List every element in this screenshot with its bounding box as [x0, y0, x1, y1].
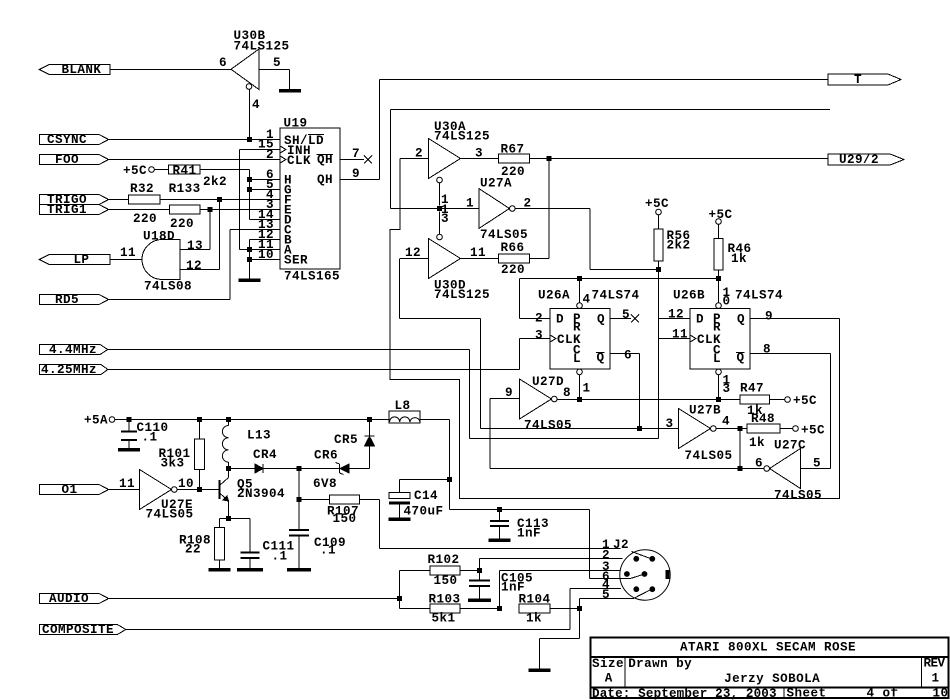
junction C14 — [447, 477, 452, 482]
junction SER — [247, 257, 252, 262]
junction Q5 emitter — [226, 516, 231, 521]
svg-text:4: 4 — [252, 98, 260, 112]
svg-text:+5C: +5C — [801, 424, 825, 438]
svg-text:U18D: U18D — [143, 230, 175, 244]
wire U27A input feed from top — [391, 110, 831, 209]
wire U19 G stub — [250, 189, 281, 191]
capacitor C111 .1 — [229, 519, 295, 569]
svg-text:QH: QH — [317, 153, 333, 167]
svg-text:4.25MHz: 4.25MHz — [41, 363, 97, 377]
capacitor C14 470uF — [389, 480, 450, 519]
inductor L8 — [389, 399, 420, 423]
svg-text:74LS05: 74LS05 — [685, 449, 733, 463]
wire U30B pin5 to ground — [259, 70, 290, 90]
svg-text:10: 10 — [258, 248, 274, 262]
svg-text:22: 22 — [185, 543, 201, 557]
junction R102/C105/J2 pin2 — [477, 568, 482, 573]
wire U27B out to U27C line — [739, 429, 741, 469]
resistor R56 2k2 — [654, 215, 691, 261]
svg-text:1k: 1k — [731, 252, 747, 266]
wire R41 to U19 H G — [200, 170, 280, 220]
resistor R102 150 — [400, 553, 480, 588]
junction U27C line — [738, 466, 743, 471]
wire U27D input from U27C out — [490, 399, 520, 469]
wire U27B output — [716, 428, 747, 430]
wire U26A CLK stub — [520, 338, 551, 340]
svg-text:U26B: U26B — [673, 289, 705, 303]
inverter U27D 74LS05 — [505, 375, 572, 433]
junction R67/R66 — [546, 156, 551, 161]
junction G — [247, 187, 252, 192]
wire U30D pin12 to U27B input net — [400, 259, 481, 429]
svg-text:3k3: 3k3 — [161, 457, 185, 471]
svg-text:TRIG1: TRIG1 — [47, 203, 87, 217]
svg-text:L: L — [713, 352, 721, 366]
wire U26A CL to clear net — [579, 375, 581, 400]
svg-text:8: 8 — [563, 386, 571, 400]
wire U26B CLK stub — [659, 338, 691, 340]
svg-text:0: 0 — [723, 295, 731, 309]
power +5C at R41 — [123, 164, 154, 178]
svg-text:Q: Q — [737, 351, 745, 365]
svg-text:R66: R66 — [501, 241, 525, 255]
wire AUDIO — [109, 598, 400, 600]
svg-text:D: D — [696, 313, 704, 327]
junction R46/preset net — [716, 276, 721, 281]
wire J2 pin5 — [580, 599, 634, 609]
svg-text:220: 220 — [133, 212, 157, 226]
svg-text:74LS165: 74LS165 — [284, 270, 340, 284]
wire T net top horizontal — [380, 79, 829, 81]
svg-text:13: 13 — [187, 239, 203, 253]
buffer U30A 74LS125 — [415, 120, 490, 207]
svg-text:1: 1 — [583, 382, 591, 396]
ground at C105 — [468, 599, 491, 603]
svg-text:Drawn by: Drawn by — [628, 657, 692, 671]
junction C110 — [127, 417, 132, 422]
junction AUDIO — [397, 596, 402, 601]
resistor R41 2k2 — [154, 164, 227, 189]
wire R56 to U26 D inputs and 4.4MHz net — [658, 261, 660, 439]
svg-text:5: 5 — [273, 56, 281, 70]
input flag TRIG0 — [40, 193, 109, 207]
inverter U27C 74LS05 — [755, 439, 822, 503]
svg-text:U29/2: U29/2 — [839, 153, 879, 167]
svg-text:R102: R102 — [428, 553, 460, 567]
svg-text:Size: Size — [592, 657, 624, 671]
svg-text:10: 10 — [933, 687, 949, 700]
junction CR4/CR6/C109 — [297, 466, 302, 471]
wire J2 pin2 — [480, 559, 623, 571]
diode CR5 — [334, 420, 375, 469]
svg-text:CR6: CR6 — [314, 449, 338, 463]
svg-text:J2: J2 — [613, 538, 629, 552]
resistor R66 220 — [461, 241, 530, 277]
svg-text:74LS05: 74LS05 — [774, 489, 822, 503]
svg-text:74LS05: 74LS05 — [524, 419, 572, 433]
wire R133 to U19 E — [200, 209, 280, 211]
inverter U27A 74LS05 — [466, 177, 532, 243]
svg-text:6V8: 6V8 — [313, 477, 337, 491]
wire R102/R103 link — [399, 571, 401, 609]
svg-text:74LS05: 74LS05 — [146, 508, 194, 522]
svg-text:R32: R32 — [130, 182, 154, 196]
svg-text:A: A — [605, 672, 613, 686]
input flag AUDIO — [40, 592, 109, 606]
svg-text:74LS74: 74LS74 — [735, 289, 783, 303]
input flag FOO — [40, 153, 109, 167]
svg-text:U26A: U26A — [538, 289, 570, 303]
wire U19 INH to A — [240, 150, 281, 250]
junction U27B input — [637, 426, 642, 431]
wire U18D pin11 to LP — [110, 246, 142, 260]
svg-text:12: 12 — [668, 308, 684, 322]
output flag T — [828, 73, 901, 87]
wire U27E out to Q5 base — [177, 489, 218, 491]
wire preset net — [520, 279, 719, 319]
ground at C14 — [389, 518, 411, 522]
svg-text:2k2: 2k2 — [667, 239, 691, 253]
wire U26A PR to preset net — [579, 279, 581, 303]
resistor R46 1k — [714, 224, 752, 270]
capacitor C113 1nF — [490, 510, 549, 541]
resistor R104 1k — [519, 593, 580, 626]
inverter U27B 74LS05 — [666, 404, 733, 464]
inverter U27E 74LS05 — [119, 470, 194, 522]
ground at U30B pin5 — [279, 89, 301, 93]
resistor R108 22 — [179, 519, 229, 569]
wire O1 to U27E — [109, 489, 140, 491]
svg-text:8: 8 — [763, 343, 771, 357]
svg-text:6: 6 — [219, 56, 227, 70]
svg-text:T: T — [854, 73, 862, 87]
svg-text:D: D — [556, 313, 564, 327]
junction R101/base — [197, 487, 202, 492]
wire U26B Qbar pin8 to U27C input — [750, 354, 831, 469]
svg-text:+5C: +5C — [793, 394, 817, 408]
resistor R101 3k3 — [159, 420, 205, 490]
svg-text:3: 3 — [535, 329, 543, 343]
svg-text:74LS08: 74LS08 — [144, 280, 192, 294]
svg-text:11: 11 — [119, 477, 135, 491]
wire TRIG0 to U18D pin12 — [180, 200, 220, 270]
wire U27C input pin5 — [801, 468, 831, 470]
wire R66 to R67 junction — [530, 159, 549, 259]
wire RD5 to U19 C — [109, 230, 280, 300]
junction A — [247, 247, 252, 252]
svg-text:3: 3 — [441, 212, 449, 226]
wire U30D input — [400, 258, 429, 260]
svg-text:2k2: 2k2 — [203, 175, 227, 189]
wire U30D ctrl to U27A input — [439, 212, 441, 235]
svg-text:74LS125: 74LS125 — [234, 40, 290, 54]
wire U26B CL to clear net — [718, 375, 720, 400]
junction Q5 collector — [226, 466, 231, 471]
wire R32 to U19 F — [160, 199, 280, 201]
svg-text:2: 2 — [535, 312, 543, 326]
resistor R103 5k1 — [400, 593, 500, 626]
wire R46 to U26B PR — [718, 270, 720, 302]
svg-text:5k1: 5k1 — [432, 612, 456, 626]
svg-text:470uF: 470uF — [404, 505, 444, 519]
svg-text:Q: Q — [597, 313, 605, 327]
svg-text:5: 5 — [622, 308, 630, 322]
junction C113 — [497, 507, 502, 512]
svg-text:9: 9 — [352, 167, 360, 181]
svg-text:.1: .1 — [320, 544, 336, 558]
junction U27A input — [437, 206, 442, 211]
svg-text:1k: 1k — [526, 612, 542, 626]
junction R103/R104 — [497, 606, 502, 611]
svg-text:7: 7 — [352, 147, 360, 161]
wire U19 H stub — [250, 179, 281, 181]
wire J2 pin6 — [590, 578, 632, 580]
ground at R108 — [209, 568, 231, 572]
wire 4.25MHz to U26A CLK — [108, 339, 520, 370]
svg-text:Jerzy SOBOLA: Jerzy SOBOLA — [724, 672, 820, 686]
input flag RD5 — [40, 293, 109, 307]
svg-text:CLK: CLK — [287, 154, 311, 168]
wire J2 pin3 — [500, 571, 621, 609]
svg-text:CSYNC: CSYNC — [47, 133, 87, 147]
resistor R48 1k — [747, 412, 793, 450]
flip-flop U26B 74LS74 — [668, 286, 783, 396]
svg-text:74LS125: 74LS125 — [434, 288, 490, 302]
svg-text:4 of: 4 of — [867, 687, 899, 700]
resistor R67 220 — [461, 143, 530, 180]
connector J2 — [602, 538, 670, 602]
svg-text:RD5: RD5 — [55, 293, 79, 307]
wire U26A Qbar to U27B input — [610, 354, 640, 429]
svg-text:11: 11 — [120, 246, 136, 260]
svg-text:2: 2 — [266, 148, 274, 162]
svg-text:2N3904: 2N3904 — [237, 487, 285, 501]
wire R67 to U29/2 — [530, 158, 829, 160]
svg-text:9: 9 — [505, 386, 513, 400]
junction U27A out/R56 — [656, 267, 661, 272]
svg-text:ATARI 800XL SECAM ROSE: ATARI 800XL SECAM ROSE — [680, 641, 856, 655]
svg-text:AUDIO: AUDIO — [49, 592, 89, 606]
svg-text:10: 10 — [178, 477, 194, 491]
junction U26A PR riser — [577, 276, 582, 281]
svg-text:U27C: U27C — [774, 439, 806, 453]
wire J2 pin4 composite — [570, 589, 621, 630]
svg-text:CR5: CR5 — [334, 433, 358, 447]
input flag TRIG1 — [40, 203, 109, 217]
wire COMPOSITE — [126, 629, 570, 631]
svg-text:L: L — [573, 352, 581, 366]
power +5C at R46 — [709, 208, 733, 224]
svg-text:+5A: +5A — [84, 414, 108, 428]
svg-text:6: 6 — [624, 349, 632, 363]
wire U19 B ground link — [250, 240, 281, 279]
wire J2 pin1 — [380, 548, 621, 550]
wire TRIG1 to U18D pin13 — [180, 210, 210, 250]
svg-text:BLANK: BLANK — [61, 63, 101, 77]
svg-text:+5C: +5C — [645, 197, 669, 211]
svg-text:R47: R47 — [740, 382, 764, 396]
svg-text:11: 11 — [672, 328, 688, 342]
output flag LP — [39, 253, 110, 267]
svg-text:4.4MHz: 4.4MHz — [49, 343, 97, 357]
junction U26A CL — [577, 397, 582, 402]
svg-text:+5C: +5C — [123, 164, 147, 178]
svg-text:12: 12 — [186, 259, 202, 273]
svg-text:U27A: U27A — [480, 177, 512, 191]
input flag O1 — [40, 483, 109, 497]
svg-text:SER: SER — [284, 254, 308, 268]
junction TRIG1/U18D — [208, 207, 213, 212]
svg-text:.1: .1 — [272, 550, 288, 564]
svg-text:REV: REV — [924, 657, 946, 671]
svg-text:.1: .1 — [142, 431, 158, 445]
wire U19 QH pin7 no-connect — [340, 156, 372, 164]
power +5A rail — [84, 414, 389, 428]
input flag 4.4MHz — [40, 343, 108, 357]
wire 4.4MHz to U26B D — [108, 350, 659, 439]
ground at C113 — [489, 539, 511, 543]
svg-text:220: 220 — [501, 263, 525, 277]
power +5C at R56 — [645, 197, 669, 215]
svg-text:9: 9 — [765, 310, 773, 324]
zener CR6 6V8 — [299, 449, 370, 492]
svg-text:4: 4 — [583, 293, 591, 307]
input flag CSYNC — [40, 133, 109, 147]
svg-text:1: 1 — [932, 672, 940, 686]
svg-text:Sheet: Sheet — [787, 687, 827, 700]
wire U26B Q pin9 — [750, 318, 840, 320]
wire U27B input net — [481, 428, 679, 430]
wire U30A input — [400, 158, 429, 160]
svg-text:Q: Q — [737, 313, 745, 327]
svg-text:U27D: U27D — [532, 375, 564, 389]
capacitor C109 .1 — [289, 530, 346, 568]
svg-text:R133: R133 — [169, 182, 201, 196]
wire R107 to J2 pin1 — [360, 500, 380, 549]
wire R104 to ground — [540, 609, 580, 669]
junction U26B CL — [716, 397, 721, 402]
power +5C at R47 — [785, 394, 817, 408]
resistor R47 1k — [740, 382, 785, 419]
wire FOO to U19 CLK — [109, 159, 280, 161]
wire U30B pin4 to CSYNC — [249, 89, 251, 139]
capacitor C105 1nF — [469, 571, 533, 599]
svg-text:Date: September 23, 2003: Date: September 23, 2003 — [592, 687, 777, 700]
input flag COMPOSITE — [40, 623, 126, 637]
wire L8 to C14 and J2 pin6 net — [420, 420, 590, 579]
svg-text:5: 5 — [602, 588, 610, 602]
ground at C110 — [118, 448, 140, 452]
wire CSYNC to U19 pin1 — [109, 139, 280, 141]
svg-text:CR4: CR4 — [253, 448, 277, 462]
shift register U19 74LS165 — [258, 117, 360, 284]
output flag BLANK — [39, 63, 110, 77]
junction TRIG0/U18D — [217, 197, 222, 202]
svg-text:O1: O1 — [62, 483, 78, 497]
buffer U30D 74LS125 — [405, 203, 490, 302]
svg-text:QH: QH — [317, 173, 333, 187]
wire U26A Q pin5 no-connect — [610, 315, 639, 323]
resistor R133 220 — [109, 182, 201, 231]
svg-text:74LS05: 74LS05 — [480, 228, 528, 242]
svg-text:COMPOSITE: COMPOSITE — [42, 623, 114, 637]
svg-text:11: 11 — [470, 246, 486, 260]
svg-text:4: 4 — [722, 415, 730, 429]
power +5C at R48 — [793, 424, 825, 438]
resistor R107 150 — [299, 495, 360, 526]
junction H — [247, 177, 252, 182]
output flag U29/2 — [828, 153, 904, 167]
wire U26B D stub — [659, 318, 691, 320]
input flag 4.25MHz — [40, 363, 108, 377]
buffer U30B 74LS125 — [219, 29, 289, 112]
diode CR4 — [229, 448, 300, 473]
resistor R32 220 — [109, 182, 160, 226]
svg-text:C14: C14 — [414, 489, 438, 503]
flip-flop U26A 74LS74 — [535, 289, 640, 396]
wire U30A/U30D input net from U26B Q — [390, 159, 840, 499]
junction CSYNC/U30B pin4 — [247, 137, 252, 142]
ground at C111 — [237, 568, 263, 572]
wire U27A output to R56 net — [515, 209, 658, 270]
svg-text:12: 12 — [405, 246, 421, 260]
junction R101 — [197, 417, 202, 422]
junction R107 — [297, 497, 302, 502]
title block — [591, 638, 949, 700]
svg-text:3: 3 — [723, 382, 731, 396]
svg-text:1nF: 1nF — [517, 527, 541, 541]
wire BLANK to U30B — [110, 69, 231, 71]
wire U27D output clear net — [557, 399, 740, 401]
svg-text:74LS125: 74LS125 — [434, 130, 490, 144]
junction U27B out — [738, 426, 743, 431]
svg-text:74LS74: 74LS74 — [592, 289, 640, 303]
junction +5A/L8/CR5 — [367, 417, 372, 422]
wire U19 QH pin9 to T — [340, 80, 380, 180]
inductor L13 — [222, 420, 271, 469]
wire U30A ctrl to U27A input — [439, 183, 441, 206]
capacitor C110 .1 — [121, 420, 169, 449]
transistor Q5 2N3904 — [220, 469, 286, 519]
svg-text:U27B: U27B — [689, 404, 721, 418]
and-gate U18D 74LS08 — [142, 230, 203, 294]
svg-text:150: 150 — [434, 574, 458, 588]
ground at J2 — [529, 669, 551, 673]
svg-text:150: 150 — [333, 512, 357, 526]
svg-text:R41: R41 — [173, 164, 197, 178]
svg-text:1k: 1k — [749, 436, 765, 450]
wire R107 node — [298, 469, 300, 531]
junction R104/J2 pin5 — [577, 606, 582, 611]
svg-text:FOO: FOO — [55, 153, 79, 167]
ground at C109 — [287, 568, 311, 572]
svg-text:LP: LP — [73, 253, 89, 267]
ground at U19 inputs — [239, 279, 261, 283]
junction L13 — [226, 417, 231, 422]
svg-text:Q: Q — [597, 351, 605, 365]
svg-text:L13: L13 — [247, 429, 271, 443]
wire U27C output to U27D — [490, 468, 764, 470]
wire U27A input segment — [391, 208, 479, 210]
